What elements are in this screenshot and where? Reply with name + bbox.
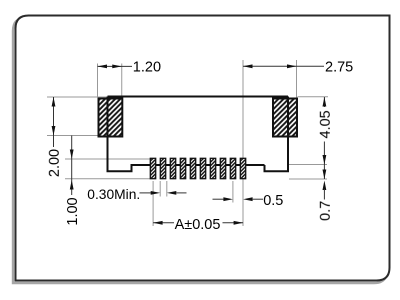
extension line 0.7 bottom [289, 178, 327, 180]
dim 0.30 line right [176, 192, 186, 194]
dim 2.75 line [243, 65, 324, 67]
dim A line right [223, 222, 244, 224]
extension line 1.00 bottom [65, 178, 150, 180]
extension line 2.75 right [296, 60, 298, 98]
dim 1.00 line [71, 136, 73, 196]
svg-text:0.30Min.: 0.30Min. [87, 187, 140, 202]
pin 2 [160, 158, 165, 178]
svg-text:1.20: 1.20 [133, 60, 161, 76]
dim 2.75 arrow right [287, 64, 297, 68]
pin 7 [210, 158, 215, 178]
extension line 1.20 right [121, 64, 123, 97]
dim 1.20 arrow right [112, 65, 122, 69]
dim 0.30 arrow left-pointing [167, 191, 177, 195]
dim 2.00 line [53, 97, 55, 147]
body top line [108, 96, 289, 98]
dim A arrow right [234, 221, 244, 225]
dim 4.05 arrow up [323, 97, 327, 107]
dim 2.00 arrow up [52, 97, 56, 107]
extension line 2.75 left / pin10 center / A right [242, 60, 244, 226]
svg-text:2.75: 2.75 [325, 60, 353, 76]
extension line A left / pin1 center [152, 181, 154, 226]
pin 5 [190, 158, 195, 178]
svg-text:2.00: 2.00 [47, 149, 63, 177]
extension line 0.30 right [166, 181, 168, 197]
dim 1.00 arrow down (outside above) [70, 150, 74, 160]
svg-text:1.00: 1.00 [65, 197, 81, 225]
pin 6 [200, 158, 205, 178]
dim 0.5 line right [252, 198, 263, 200]
pad right [273, 99, 297, 137]
extension line 0.5 left / pin9 center [232, 181, 234, 203]
pin 10 [240, 158, 245, 178]
pad left [99, 99, 123, 137]
svg-text:0.7: 0.7 [318, 201, 334, 221]
svg-text:0.5: 0.5 [263, 193, 283, 209]
svg-text:A±0.05: A±0.05 [175, 217, 221, 233]
extension line 4.05 top [298, 96, 329, 98]
dim 0.30 arrow right-pointing [151, 191, 161, 195]
svg-text:4.05: 4.05 [318, 110, 334, 138]
dim 0.5 arrow right-pointing [223, 197, 233, 201]
extension line 1.00 top [65, 158, 150, 160]
dim 0.7 arrow down (outside above) [323, 155, 327, 165]
dim 4.05 line upper [323, 97, 325, 107]
pin 1 [150, 158, 155, 178]
dim 2.75 arrow left [243, 64, 253, 68]
body left profile [108, 97, 153, 172]
pin 4 [180, 158, 185, 178]
extension line 2.00 top [47, 96, 107, 98]
dim 0.5 line left [213, 198, 225, 200]
body center bottom line [132, 164, 265, 166]
dim 2.00 arrow down [52, 126, 56, 136]
pin 8 [220, 158, 225, 178]
dim 4.05 arrow down [323, 170, 327, 180]
dim 1.00 arrow up (outside below) [70, 180, 74, 190]
body right profile [265, 97, 289, 172]
pin 3 [170, 158, 175, 178]
extension line 2.00 bottom [47, 135, 98, 137]
dim 0.7 arrow up (outside below) [323, 181, 327, 191]
pin 9 [230, 158, 235, 178]
dim 1.20 line [98, 65, 133, 67]
extension line 0.7 top [289, 164, 327, 166]
dim A arrow left [153, 221, 163, 225]
dim 0.30 line left [140, 192, 152, 194]
dim A line left [153, 222, 174, 224]
dim 1.20 arrow left [98, 65, 108, 69]
dim 0.7 line [323, 189, 325, 200]
extension line 1.20 left [97, 64, 99, 97]
extension line 0.30 left [159, 181, 161, 197]
dim 4.05 line lower [323, 142, 325, 180]
dim 0.5 arrow left-pointing [243, 197, 253, 201]
